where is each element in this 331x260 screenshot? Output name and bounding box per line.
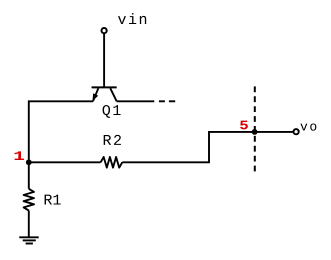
wire R1 to ground [28, 211, 30, 238]
wire emitter to left corner down to node 1 [29, 101, 93, 162]
node 5 label [240, 121, 248, 130]
node 5 junction dot [252, 129, 258, 135]
node 1 junction dot [26, 159, 32, 165]
label R2 [104, 135, 111, 145]
terminal vin (open circle) [102, 28, 107, 33]
label vin [118, 16, 126, 24]
wire collector right (solid) [117, 100, 155, 102]
wire collector continuation dash 2 [169, 100, 175, 102]
node 1 label [15, 151, 25, 160]
transistor Q1 base bar [92, 86, 117, 88]
wire vin to base of Q1 [103, 34, 105, 88]
ground symbol [19, 237, 38, 243]
resistor R2 [101, 157, 123, 168]
transistor Q1 collector leg [110, 88, 116, 101]
wire node 1 to R2 [29, 161, 101, 163]
wire node 1 down to R1 [28, 162, 30, 189]
label vo [300, 124, 307, 131]
transistor Q1 emitter arrow [92, 93, 98, 101]
resistor R1 [24, 189, 34, 211]
terminal vo (open circle) [294, 129, 299, 134]
wire R2 to corner up to node 5 [122, 132, 292, 162]
label R1 [45, 195, 52, 205]
label Q1 [103, 105, 111, 118]
wire collector continuation dash 1 [159, 100, 165, 102]
cut line (dashed) through node 5 [254, 86, 256, 172]
transistor Q1 emitter leg [93, 88, 98, 101]
